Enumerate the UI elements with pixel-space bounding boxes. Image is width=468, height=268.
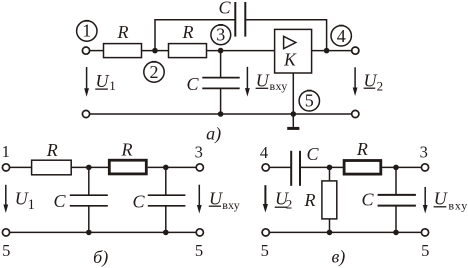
node circle 2 [144,62,164,82]
svg-text:K: K [283,50,297,70]
underline of Uвху (circuit b) [209,205,221,207]
svg-text:1: 1 [109,78,116,93]
label Uвху (circuit a) [256,71,288,94]
node circle 5 [299,91,319,111]
svg-text:2: 2 [377,78,384,93]
svg-text:1: 1 [28,197,35,213]
underline of U1 [95,88,108,90]
label U1 (circuit a) [96,71,116,93]
svg-text:3: 3 [216,25,225,45]
svg-text:4: 4 [260,143,268,162]
junction: C1 tap (circuit b) [86,165,92,171]
svg-text:3: 3 [420,142,428,161]
svg-text:C: C [186,74,199,94]
svg-text:U: U [434,189,448,209]
label U2 (circuit v) [275,189,292,212]
svg-text:C: C [306,144,319,164]
svg-text:5: 5 [421,241,429,260]
wire: R horizontal to terminal 3 (circuit v) [381,166,422,168]
capacitor C feedback (top, circuit a) [235,2,245,37]
svg-text:C: C [218,0,231,18]
underline of U2 (circuit v) [275,206,287,208]
arrow Uвху (circuit a) [245,67,250,97]
junction: ground lead to rail [291,111,297,117]
arrow Uвху (circuit v) [423,187,428,214]
wire: R2 to amplifier input [207,50,275,52]
resistor R1 (circuit b) [32,160,72,175]
svg-text:5: 5 [261,241,269,260]
svg-text:2: 2 [286,197,293,212]
capacitor C series (circuit v) [291,151,300,186]
junction: shunt capacitor to rail [218,111,224,117]
resistor R2 (circuit a) [169,44,207,58]
resistor R1 (circuit a) [104,44,142,58]
svg-text:1: 1 [82,21,91,41]
underline of Uвху (circuit v) [434,206,447,208]
bottom common rail (circuit a) [90,113,352,115]
op-amp K box [275,29,312,73]
svg-text:R: R [356,139,368,159]
bottom rail (circuit v) [269,231,421,233]
arrow Uвху (circuit b) [197,185,202,214]
svg-text:в): в) [331,246,345,267]
wire: R1 to R2 (circuit b) [71,166,109,168]
terminal node 5 bottom-left (circuit v) [262,229,269,236]
svg-text:4: 4 [337,26,346,46]
junction node 4 [324,48,330,54]
terminal node 5 bottom-left (circuit b) [2,229,9,236]
svg-text:вху: вху [448,198,468,212]
node circle 3 [211,25,231,45]
resistor R horizontal bold (circuit v) [344,161,381,175]
label Uвху (circuit b) [209,189,240,212]
svg-text:R: R [46,140,58,160]
terminal node 1 (circuit b, top-left) [2,164,9,171]
node circle 1 [77,21,97,42]
terminal node 1 (circuit a, top-left input) [82,47,89,54]
resistor R vertical (circuit v) [322,167,337,232]
junction: C2 to rail (circuit b) [163,230,169,236]
arrow U1 (circuit b) [3,185,8,213]
bottom rail (circuit b) [10,231,197,233]
wire: series capacitor to R horizontal (circuit v) [300,166,344,168]
svg-text:R: R [304,190,316,210]
svg-text:C: C [53,191,66,211]
label U1 (circuit b) [15,189,35,213]
svg-text:C: C [132,192,145,212]
capacitor C shunt (circuit v) [378,167,416,232]
svg-text:U: U [256,71,270,91]
junction: vertical R to rail (circuit v) [327,230,333,236]
svg-text:U: U [96,71,110,91]
underline of Uвху [256,87,269,89]
terminal node 4 (circuit v, top-left) [262,164,269,171]
node circle 4 [331,26,351,46]
svg-text:U: U [364,71,378,91]
svg-text:2: 2 [150,62,159,82]
capacitor C2 (circuit b) [148,167,186,232]
junction: C2 tap (circuit b) [163,165,169,171]
wire: amplifier output to terminal 4 [312,50,352,52]
svg-text:C: C [361,190,374,210]
svg-text:вху: вху [222,198,240,212]
terminal bottom-right (circuit a) [352,110,359,117]
junction node 2 [152,48,158,54]
terminal bottom-left (circuit a) [82,110,89,117]
svg-text:5: 5 [195,241,203,260]
junction node 3 [218,48,224,54]
junction: R vertical tap (circuit v) [327,165,333,171]
junction: shunt capacitor tap (circuit v) [393,165,399,171]
svg-text:вху: вху [270,79,288,93]
svg-text:R: R [121,140,133,160]
wire: feedback capacitor to node 4 [245,20,326,51]
wire: node 2 up and right to feedback capacitor [155,20,235,51]
label U2 (circuit a) [364,71,384,94]
svg-text:1: 1 [2,142,10,161]
wire: R1 to R2 [142,50,169,52]
ground symbol [287,114,299,128]
junction: C1 to rail (circuit b) [86,230,92,236]
junction: shunt capacitor to rail (circuit v) [393,230,399,236]
svg-text:R: R [117,22,129,42]
svg-text:R: R [182,22,194,42]
terminal node 3 (circuit v, top-right) [421,164,428,171]
terminal node 5 bottom-right (circuit b) [196,229,203,236]
wire: terminal 4 to series capacitor (circuit v) [269,166,291,168]
capacitor C shunt at node 3 (circuit a) [202,51,239,114]
wire: amplifier ground lead [292,73,294,114]
svg-text:3: 3 [195,142,203,161]
terminal node 5 bottom-right (circuit v) [421,229,428,236]
svg-text:5: 5 [2,241,10,260]
arrow U2 (circuit a) [353,67,358,96]
svg-text:5: 5 [305,91,314,111]
op-amp triangle symbol [284,36,296,48]
arrow U2 (circuit v) [263,185,268,212]
terminal node 3 (circuit b, top-right) [196,164,203,171]
svg-text:а): а) [206,123,221,144]
capacitor C1 (circuit b) [70,167,108,232]
wire: R2 to terminal 3 (circuit b) [148,166,197,168]
terminal node 4 (output, top right) [352,47,359,54]
underline of U2 [364,87,376,89]
label Uвху (circuit v) [434,189,468,213]
resistor R2 bold (circuit b) [109,160,146,174]
wire: terminal 1 to R1 (circuit b) [10,166,32,168]
arrow U1 (circuit a) [84,67,89,97]
svg-text:б): б) [93,247,108,268]
wire: terminal 1 to R1 [90,50,104,52]
